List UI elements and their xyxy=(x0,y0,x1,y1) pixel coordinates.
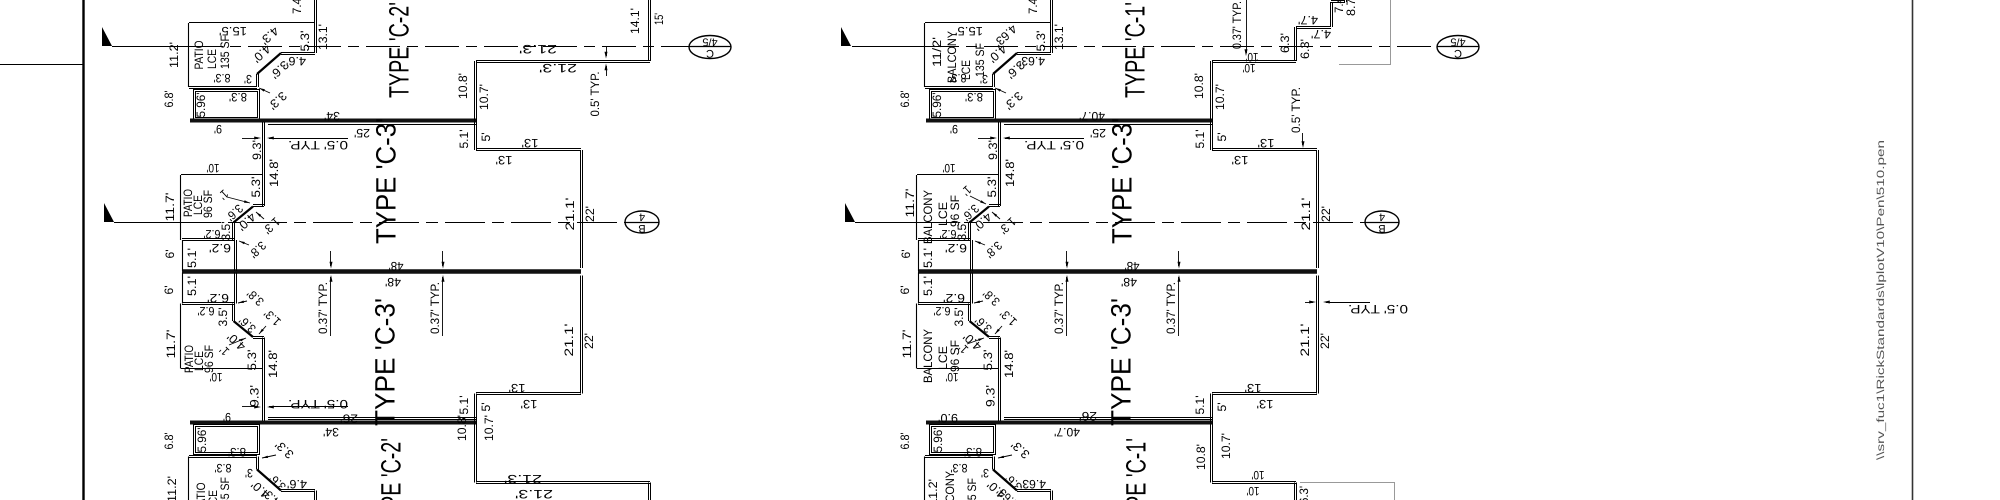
unit-A patio1 boundary (thin) xyxy=(189,22,315,24)
svg-text:0.37' TYP.: 0.37' TYP. xyxy=(1230,1,1244,49)
svg-text:3': 3' xyxy=(981,466,989,480)
svg-text:10.7': 10.7' xyxy=(1213,84,1227,110)
svg-text:5.1': 5.1' xyxy=(1193,396,1207,415)
svg-text:5.1': 5.1' xyxy=(921,248,935,268)
svg-text:6.2': 6.2' xyxy=(943,291,965,305)
unit-A small box lower xyxy=(182,303,235,305)
svg-text:5.96': 5.96' xyxy=(930,93,944,118)
unit-B unit bottom wall lower xyxy=(1212,482,1296,484)
svg-text:10': 10' xyxy=(1243,61,1256,75)
unit-B patio2 boundary (thin) xyxy=(916,175,918,240)
svg-text:48': 48' xyxy=(389,259,404,273)
svg-text:9': 9' xyxy=(223,410,231,424)
svg-text:3': 3' xyxy=(244,72,252,86)
svg-text:10': 10' xyxy=(943,161,956,175)
sheet border left xyxy=(82,0,84,500)
unit-B unit bottom wall y61 xyxy=(1212,61,1296,63)
svg-text:5': 5' xyxy=(1215,133,1229,142)
svg-text:6.2': 6.2' xyxy=(198,304,215,318)
svg-text:5.96': 5.96' xyxy=(194,93,208,118)
svg-text:14.8': 14.8' xyxy=(1002,350,1016,378)
svg-text:4/5: 4/5 xyxy=(702,36,717,48)
svg-text:0.5' TYP.: 0.5' TYP. xyxy=(1289,87,1303,133)
svg-text:6.2': 6.2' xyxy=(934,304,951,318)
svg-text:135 SF: 135 SF xyxy=(965,478,979,500)
svg-text:15': 15' xyxy=(652,13,666,25)
svg-text:21.3': 21.3' xyxy=(539,61,577,75)
svg-text:10': 10' xyxy=(1252,468,1265,482)
svg-text:4: 4 xyxy=(1379,211,1385,223)
svg-text:5.1': 5.1' xyxy=(457,130,471,149)
unit-B party wall 34ft xyxy=(926,119,1212,123)
svg-text:6.2': 6.2' xyxy=(207,291,229,305)
margin tick left xyxy=(0,64,83,66)
svg-text:5.3': 5.3' xyxy=(981,350,995,371)
unit-A matchline flag row2 xyxy=(104,203,114,222)
svg-text:0.37' TYP.: 0.37' TYP. xyxy=(316,282,330,334)
svg-text:13': 13' xyxy=(522,136,539,150)
unit-A grid marker B-4 xyxy=(625,211,659,233)
svg-text:10.7': 10.7' xyxy=(482,415,496,441)
svg-text:13': 13' xyxy=(509,381,526,395)
svg-text:PATIO: PATIO xyxy=(192,41,206,70)
svg-text:6.2': 6.2' xyxy=(209,241,231,255)
svg-text:15.5': 15.5' xyxy=(955,24,983,38)
svg-text:6.3': 6.3' xyxy=(1298,39,1312,59)
svg-text:TYPE 'C-3': TYPE 'C-3' xyxy=(370,118,401,244)
svg-text:0.37' TYP.: 0.37' TYP. xyxy=(1164,282,1178,334)
svg-text:10.8': 10.8' xyxy=(1192,73,1206,99)
svg-text:6.2': 6.2' xyxy=(945,241,967,255)
svg-text:B: B xyxy=(638,222,645,234)
svg-text:9': 9' xyxy=(214,122,222,136)
svg-text:48': 48' xyxy=(385,275,401,289)
unit-A unit bottom wall lower xyxy=(476,482,650,484)
unit-A small box upper xyxy=(182,239,235,241)
svg-text:5.1': 5.1' xyxy=(457,396,471,415)
svg-text:4.7': 4.7' xyxy=(1311,27,1331,41)
svg-text:6': 6' xyxy=(163,250,177,259)
unit-A patio box lower 5.96x8.3 xyxy=(194,425,260,455)
svg-text:5.1': 5.1' xyxy=(1193,130,1207,149)
unit-B patio4 boundary (thin) xyxy=(924,457,926,500)
unit-A patio box 5.96x8.3 xyxy=(194,90,260,120)
svg-text:C: C xyxy=(1454,47,1462,59)
svg-text:10.8': 10.8' xyxy=(456,73,470,99)
svg-text:48': 48' xyxy=(1121,275,1137,289)
svg-text:8.7': 8.7' xyxy=(1344,0,1358,16)
svg-text:6': 6' xyxy=(899,250,913,259)
svg-text:4.63': 4.63' xyxy=(1020,477,1046,491)
unit-A left wall upper xyxy=(263,122,265,206)
svg-text:21.1': 21.1' xyxy=(563,198,577,231)
unit-B centerline row1 xyxy=(852,46,925,48)
svg-text:25': 25' xyxy=(1090,126,1106,140)
svg-text:34': 34' xyxy=(323,425,339,439)
unit-A patio2 boundary (thin) xyxy=(180,175,182,240)
unit-A grid marker 4/5-C xyxy=(689,36,731,59)
svg-text:26': 26' xyxy=(340,411,358,425)
svg-text:4.6': 4.6' xyxy=(286,54,306,68)
unit-A patio4 boundary (thin) xyxy=(188,457,190,500)
unit-A party wall 48ft xyxy=(182,269,581,274)
svg-text:4.6': 4.6' xyxy=(287,477,307,491)
unit-B left wall lower xyxy=(969,304,971,322)
unit-B wall top stair xyxy=(1051,0,1053,53)
svg-text:6.8': 6.8' xyxy=(162,433,176,450)
svg-text:6.2': 6.2' xyxy=(204,227,221,241)
svg-text:34': 34' xyxy=(324,109,340,123)
svg-text:BALCONY: BALCONY xyxy=(921,329,935,383)
svg-text:BALCONY: BALCONY xyxy=(921,190,935,244)
thin 26ft lines right xyxy=(1004,418,1212,420)
svg-text:0.5' TYP.: 0.5' TYP. xyxy=(588,72,602,117)
svg-text:96 SF: 96 SF xyxy=(201,190,215,218)
unit-B grid marker 4/5-C xyxy=(1437,36,1479,59)
svg-text:8.3': 8.3' xyxy=(965,90,983,104)
svg-text:10.8': 10.8' xyxy=(1194,444,1208,470)
unit-B patio3 boundary (thin) xyxy=(916,304,918,369)
unit-A centerline row2 xyxy=(114,222,181,224)
svg-text:13': 13' xyxy=(1232,153,1249,167)
svg-text:6.2': 6.2' xyxy=(940,227,957,241)
unit-B 0.37 typ dims xyxy=(1066,251,1068,266)
svg-text:3.5': 3.5' xyxy=(216,308,230,327)
svg-text:135 SF: 135 SF xyxy=(218,477,232,500)
svg-text:5.96': 5.96' xyxy=(195,428,209,453)
svg-text:8.3': 8.3' xyxy=(229,90,247,104)
svg-text:14.1': 14.1' xyxy=(628,8,642,34)
unit-A matchline flag row1 xyxy=(102,27,112,46)
svg-text:21.1': 21.1' xyxy=(562,324,576,357)
svg-text:21.3': 21.3' xyxy=(515,487,553,500)
svg-text:4.63': 4.63' xyxy=(1019,54,1045,68)
svg-text:10': 10' xyxy=(1247,484,1260,498)
svg-text:22': 22' xyxy=(582,333,596,349)
svg-text:9.3': 9.3' xyxy=(248,385,262,407)
unit-A centerline row1 xyxy=(112,46,189,48)
svg-text:5.3': 5.3' xyxy=(245,350,259,371)
unit-A party wall 34ft lower xyxy=(190,421,476,425)
svg-text:10.7': 10.7' xyxy=(477,84,491,110)
svg-text:5.3': 5.3' xyxy=(1034,31,1048,52)
svg-text:\\srv_fuc1\RickStandards\lplot: \\srv_fuc1\RickStandards\lplotV10\Pen\51… xyxy=(1875,140,1887,460)
unit-B patio1 boundary (thin) xyxy=(925,22,1051,24)
unit-B small box upper xyxy=(918,239,971,241)
svg-text:22': 22' xyxy=(1318,333,1332,349)
unit-A left wall lower xyxy=(233,304,235,322)
svg-text:11.7': 11.7' xyxy=(903,189,917,218)
svg-text:5.1': 5.1' xyxy=(185,248,199,268)
svg-text:7.4': 7.4' xyxy=(1026,0,1040,14)
svg-text:6.3': 6.3' xyxy=(1278,33,1292,53)
svg-text:0.37' TYP.: 0.37' TYP. xyxy=(428,282,442,334)
svg-text:6': 6' xyxy=(162,286,176,295)
svg-text:10.7': 10.7' xyxy=(1219,433,1233,459)
svg-text:5.96': 5.96' xyxy=(931,428,945,453)
svg-text:0.5' TYP.: 0.5' TYP. xyxy=(1024,138,1084,152)
svg-text:0.5' TYP.: 0.5' TYP. xyxy=(1348,302,1408,316)
svg-text:5.3': 5.3' xyxy=(249,177,263,198)
svg-text:40.7': 40.7' xyxy=(1079,109,1105,123)
svg-text:5': 5' xyxy=(479,133,493,142)
svg-text:15.5': 15.5' xyxy=(219,24,247,38)
svg-text:6.8': 6.8' xyxy=(162,91,176,108)
unit-A 0.37 typ dims xyxy=(330,251,332,266)
svg-text:11.7': 11.7' xyxy=(164,330,178,359)
unit-B matchline flag row1 xyxy=(841,27,851,46)
unit-B patio box lower 5.96x8.3 xyxy=(930,425,996,455)
svg-text:11/2': 11/2' xyxy=(930,37,944,67)
sheet border right xyxy=(1912,0,1914,500)
svg-text:9.3': 9.3' xyxy=(984,385,998,407)
svg-text:10.8': 10.8' xyxy=(455,415,469,441)
svg-text:10': 10' xyxy=(207,161,220,175)
svg-text:LCE: LCE xyxy=(205,49,219,69)
svg-text:8.3': 8.3' xyxy=(964,445,982,459)
svg-text:3': 3' xyxy=(980,72,988,86)
svg-text:TYPE 'C-2': TYPE 'C-2' xyxy=(383,2,414,98)
svg-text:11.7': 11.7' xyxy=(163,193,177,222)
svg-text:TYPE 'C-3': TYPE 'C-3' xyxy=(1105,298,1136,426)
unit-B wall bottom stair xyxy=(925,456,993,458)
unit-B right-side walls xyxy=(1295,27,1297,61)
svg-text:13': 13' xyxy=(1258,136,1275,150)
svg-text:C: C xyxy=(706,47,714,59)
svg-text:6': 6' xyxy=(898,286,912,295)
svg-text:135 SF: 135 SF xyxy=(218,35,232,69)
svg-text:13': 13' xyxy=(1245,381,1262,395)
svg-text:7.4': 7.4' xyxy=(290,0,304,14)
svg-text:13': 13' xyxy=(1257,397,1274,411)
unit-B party wall 34ft lower xyxy=(926,421,1212,425)
svg-text:6.3': 6.3' xyxy=(1297,486,1311,500)
svg-text:5.3': 5.3' xyxy=(985,177,999,198)
unit-A wall bottom stair xyxy=(189,456,257,458)
svg-text:6.8': 6.8' xyxy=(898,91,912,108)
svg-text:14.8': 14.8' xyxy=(266,350,280,378)
svg-text:14.8': 14.8' xyxy=(1003,159,1017,187)
svg-text:9.0': 9.0' xyxy=(938,411,958,425)
svg-text:11.2': 11.2' xyxy=(167,42,181,68)
svg-text:13': 13' xyxy=(496,153,513,167)
svg-text:5': 5' xyxy=(479,403,493,412)
svg-text:6.8': 6.8' xyxy=(898,433,912,450)
svg-text:3.5': 3.5' xyxy=(952,308,966,327)
svg-text:11.7': 11.7' xyxy=(900,330,914,359)
svg-text:8.3': 8.3' xyxy=(228,445,246,459)
svg-text:21.3': 21.3' xyxy=(504,472,542,486)
svg-text:21.3': 21.3' xyxy=(519,42,557,56)
svg-text:0.5' TYP.: 0.5' TYP. xyxy=(288,397,348,411)
plot window (gray) xyxy=(1390,0,1392,64)
svg-text:11.2': 11.2' xyxy=(926,479,940,500)
svg-text:8.3': 8.3' xyxy=(215,461,232,475)
svg-text:TYPE 'C-1': TYPE 'C-1' xyxy=(1120,438,1151,500)
svg-text:9.3': 9.3' xyxy=(986,140,1000,160)
svg-text:9': 9' xyxy=(950,122,958,136)
svg-text:22': 22' xyxy=(583,206,597,222)
svg-text:5.1': 5.1' xyxy=(185,276,199,296)
unit-B centerline row2 xyxy=(855,222,917,224)
svg-text:0.37' TYP.: 0.37' TYP. xyxy=(1052,282,1066,334)
svg-text:3': 3' xyxy=(245,466,253,480)
svg-text:5': 5' xyxy=(1215,403,1229,412)
unit-A patio3 boundary (thin) xyxy=(180,304,182,369)
unit-B matchline flag row2 xyxy=(845,203,855,222)
svg-text:5.1': 5.1' xyxy=(921,276,935,296)
unit-B left wall upper xyxy=(999,122,1001,206)
svg-text:0.5' TYP.: 0.5' TYP. xyxy=(288,138,348,152)
svg-text:48': 48' xyxy=(1125,259,1140,273)
svg-text:B: B xyxy=(1378,222,1385,234)
svg-text:40.7': 40.7' xyxy=(1054,425,1080,439)
unit-B party wall 48ft xyxy=(918,269,1317,274)
svg-text:14.8': 14.8' xyxy=(267,159,281,187)
unit-B small box lower xyxy=(918,303,971,305)
svg-text:TYPE 'C-1': TYPE 'C-1' xyxy=(1119,2,1150,98)
svg-text:8.3': 8.3' xyxy=(214,71,231,85)
svg-text:TYPE 'C-3': TYPE 'C-3' xyxy=(1106,118,1137,244)
unit-B grid marker B-4 xyxy=(1365,211,1399,233)
unit-A wall top stair xyxy=(315,0,317,53)
svg-text:9.3': 9.3' xyxy=(250,140,264,160)
svg-text:4: 4 xyxy=(639,211,645,223)
unit-B patio box 5.96x8.3 xyxy=(930,90,996,120)
unit-A unit bottom wall y61 xyxy=(476,61,650,63)
svg-text:BALCONY: BALCONY xyxy=(943,471,957,500)
unit-A right-side walls xyxy=(649,0,651,61)
svg-text:5.3': 5.3' xyxy=(298,31,312,52)
svg-text:TYPE 'C-2': TYPE 'C-2' xyxy=(375,438,406,500)
svg-text:25': 25' xyxy=(354,126,370,140)
svg-text:21.1': 21.1' xyxy=(1298,324,1312,357)
svg-text:4.7': 4.7' xyxy=(1298,13,1318,27)
svg-text:21.1': 21.1' xyxy=(1299,198,1313,231)
svg-text:96 SF: 96 SF xyxy=(202,345,216,373)
svg-text:8.3': 8.3' xyxy=(950,71,967,85)
svg-text:26': 26' xyxy=(1079,409,1097,423)
unit-A party wall 34ft xyxy=(190,119,476,123)
svg-text:13': 13' xyxy=(521,397,538,411)
svg-text:4/5: 4/5 xyxy=(1450,36,1465,48)
svg-text:22': 22' xyxy=(1319,206,1333,222)
svg-text:11.2': 11.2' xyxy=(165,476,179,500)
svg-text:TYPE 'C-3': TYPE 'C-3' xyxy=(369,298,400,426)
